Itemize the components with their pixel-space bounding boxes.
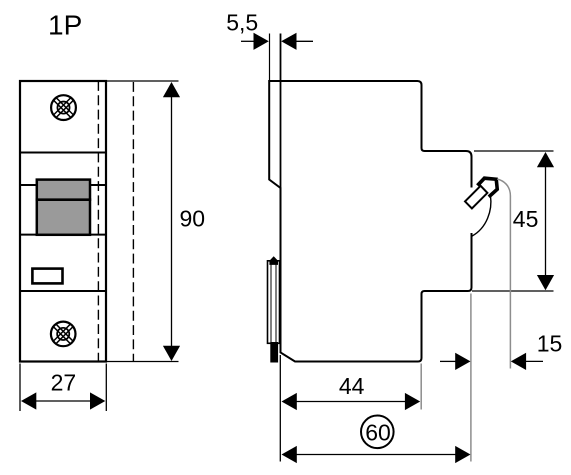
svg-text:27: 27	[51, 370, 77, 396]
svg-text:1P: 1P	[48, 10, 82, 41]
dimension 60: encircling circle	[361, 416, 394, 449]
DIN clip top cap	[269, 256, 278, 265]
dimension 27: dimension line	[36, 400, 90, 402]
front view divider line 2	[20, 184, 106, 186]
extension line from lever tip for dimension 15	[497, 179, 510, 369]
dimension 60: right arrowhead	[455, 446, 470, 463]
extension line rear face for dimensions 44/60	[279, 355, 281, 462]
dimension 5,5: left arrowhead	[254, 33, 269, 50]
svg-text:44: 44	[339, 373, 365, 399]
DIN clip tube inner walls	[270, 262, 272, 344]
toggle handle (front view)	[37, 180, 90, 235]
toggle lever white grip (side view)	[465, 186, 487, 209]
dimension 45: dimension line	[545, 167, 547, 277]
dimension 44: dimension line	[296, 401, 406, 403]
dimension 45: bottom extension line	[472, 290, 554, 292]
dimension 5,5: left extension line	[269, 34, 271, 81]
dimension 90: bottom extension line	[107, 361, 179, 363]
dimension 15: right arrowhead	[511, 353, 526, 370]
dimension 27: right extension line	[105, 364, 107, 412]
extension line lower front face for dimensions 15/60	[470, 294, 472, 462]
dimension 5,5: right arrow shaft	[297, 40, 314, 42]
dimension 5,5: left arrow shaft	[241, 40, 254, 42]
dimension 44: right arrowhead	[405, 393, 420, 410]
dimension 90: top arrowhead	[163, 82, 180, 97]
dashed module-pitch line right of front view	[132, 82, 134, 362]
dimension 45: top arrowhead	[537, 152, 554, 167]
svg-text:90: 90	[180, 206, 206, 232]
svg-text:60: 60	[365, 419, 391, 445]
DIN clip bottom latch block	[270, 342, 278, 363]
side view inner rear edge line	[280, 34, 282, 353]
toggle lever black bracket (side view)	[476, 176, 499, 198]
dimension 44: left arrowhead	[282, 393, 297, 410]
bottom terminal screw	[48, 319, 79, 350]
dimension 15: right arrow shaft	[526, 360, 543, 362]
dimension 15: left arrowhead	[455, 353, 470, 370]
dimension 15: left arrow shaft	[440, 360, 456, 362]
dimension 45: top extension line	[474, 150, 554, 152]
dimension 5,5: right arrowhead	[281, 33, 296, 50]
dimension 27: right arrowhead	[90, 392, 105, 409]
label window	[32, 269, 62, 284]
extension line lower rear face for dimension 44	[420, 364, 422, 410]
side view main outline	[269, 81, 471, 362]
svg-text:15: 15	[537, 331, 563, 357]
dimension 90: bottom arrowhead	[163, 346, 180, 361]
dimension 90: dimension line	[171, 96, 173, 347]
front view divider line 1	[20, 152, 106, 154]
top terminal screw	[48, 92, 79, 123]
dimension 27: left arrowhead	[21, 392, 36, 409]
dimension 27: left extension line	[19, 364, 21, 412]
dimension 45: bottom arrowhead	[537, 275, 554, 290]
front view body outline	[20, 81, 106, 362]
front view divider line 4	[20, 290, 106, 292]
dimension 90: top extension line	[107, 80, 179, 82]
front view divider line 3	[20, 234, 106, 236]
dimension 60: dimension line	[296, 454, 456, 456]
svg-text:5,5: 5,5	[226, 9, 258, 35]
dimension 60: left arrowhead	[282, 446, 297, 463]
DIN clip tube	[268, 261, 280, 344]
svg-text:45: 45	[513, 206, 539, 232]
dashed centerline inside front view	[97, 81, 99, 362]
toggle sweep arc	[472, 196, 491, 236]
